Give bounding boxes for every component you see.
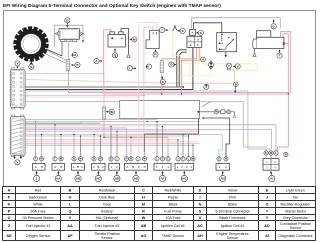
svg-text:K: K — [8, 203, 11, 207]
svg-text:I: I — [199, 196, 200, 200]
svg-text:M: M — [225, 158, 227, 161]
svg-text:10A Fuse: 10A Fuse — [165, 216, 180, 220]
svg-text:B: B — [73, 158, 75, 161]
svg-text:AH: AH — [197, 234, 203, 238]
svg-text:E: E — [266, 189, 269, 193]
svg-text:C: C — [138, 165, 140, 169]
svg-text:White: White — [33, 202, 42, 206]
svg-text:Fuel Injector #2: Fuel Injector #2 — [95, 224, 120, 228]
svg-text:MIL (Optional): MIL (Optional) — [96, 216, 119, 220]
svg-text:Diagnostic Connector: Diagnostic Connector — [278, 234, 313, 238]
svg-text:S: S — [200, 31, 202, 35]
svg-text:Tan: Tan — [293, 195, 299, 199]
svg-text:S: S — [199, 210, 202, 214]
svg-text:U: U — [8, 216, 11, 220]
svg-text:G: G — [69, 196, 72, 200]
svg-text:EFI Wiring Diagram 5-Terminal: EFI Wiring Diagram 5-Terminal Connector … — [3, 3, 221, 9]
svg-text:AI: AI — [265, 234, 269, 238]
svg-text:V: V — [69, 216, 72, 220]
svg-text:Pink: Pink — [229, 195, 236, 199]
svg-text:Rectifier-Regulator: Rectifier-Regulator — [281, 202, 312, 206]
svg-text:Y: Y — [266, 216, 269, 220]
svg-text:A: A — [35, 165, 37, 169]
svg-text:B: B — [60, 165, 62, 169]
svg-text:Starter Motor: Starter Motor — [285, 209, 307, 213]
svg-text:N: N — [199, 203, 202, 207]
svg-text:N: N — [30, 65, 32, 69]
svg-text:R: R — [142, 210, 145, 214]
svg-text:A: A — [126, 165, 128, 169]
svg-text:Stator: Stator — [228, 202, 238, 206]
svg-text:I: I — [162, 28, 163, 32]
svg-text:Dark Green: Dark Green — [29, 195, 48, 199]
svg-text:B: B — [285, 153, 287, 156]
svg-text:B: B — [132, 165, 134, 169]
svg-text:M: M — [100, 158, 102, 161]
svg-text:Sensor: Sensor — [290, 226, 302, 230]
svg-text:M: M — [192, 158, 194, 161]
svg-text:Black: Black — [169, 202, 178, 206]
svg-text:I: I — [129, 66, 130, 70]
svg-text:Oxygen Sensor: Oxygen Sensor — [26, 234, 52, 238]
svg-text:AI: AI — [270, 177, 273, 181]
svg-text:Black Connector: Black Connector — [219, 216, 246, 220]
svg-text:X: X — [16, 160, 18, 164]
svg-text:Sensor: Sensor — [101, 236, 113, 240]
svg-text:B: B — [77, 165, 79, 169]
svg-text:AE: AE — [6, 234, 12, 238]
svg-text:B: B — [93, 158, 95, 161]
svg-text:M: M — [80, 158, 82, 161]
svg-text:O: O — [266, 203, 269, 207]
svg-text:AG: AG — [182, 177, 187, 181]
svg-text:C: C — [102, 165, 104, 169]
svg-text:P: P — [76, 63, 78, 67]
svg-text:B: B — [69, 189, 72, 193]
svg-text:Dark Blue: Dark Blue — [99, 195, 115, 199]
svg-text:T: T — [279, 54, 281, 58]
svg-text:Y: Y — [16, 61, 18, 65]
svg-text:Grey Connector: Grey Connector — [283, 216, 309, 220]
svg-text:H: H — [74, 53, 76, 57]
svg-text:A: A — [54, 165, 56, 169]
svg-text:M: M — [60, 158, 62, 161]
svg-text:H: H — [142, 196, 145, 200]
svg-text:Ignition Coil #2: Ignition Coil #2 — [221, 224, 245, 228]
svg-text:U: U — [202, 57, 204, 61]
svg-text:Oil Pressure Switch: Oil Pressure Switch — [22, 216, 53, 220]
svg-text:D: D — [199, 189, 202, 193]
svg-text:K: K — [265, 152, 267, 155]
svg-text:X: X — [199, 216, 202, 220]
svg-text:AC: AC — [197, 224, 203, 228]
svg-text:W: W — [142, 216, 146, 220]
svg-text:Fuel Pump: Fuel Pump — [164, 209, 181, 213]
svg-text:M: M — [142, 203, 145, 207]
svg-text:C: C — [142, 189, 145, 193]
svg-text:M: M — [144, 158, 146, 161]
svg-text:D: D — [197, 43, 199, 47]
svg-text:M: M — [270, 152, 272, 155]
svg-text:V: V — [237, 64, 239, 68]
svg-text:Red/White: Red/White — [165, 188, 182, 192]
svg-text:AB: AB — [141, 224, 147, 228]
svg-text:A: A — [8, 189, 11, 193]
svg-text:Q: Q — [69, 210, 72, 214]
svg-text:Z: Z — [36, 177, 38, 181]
svg-text:5-Terminal Connector: 5-Terminal Connector — [215, 209, 250, 213]
svg-text:Yellow: Yellow — [227, 188, 238, 192]
svg-text:C: C — [167, 158, 169, 161]
svg-text:AG: AG — [141, 234, 147, 238]
svg-text:AH: AH — [221, 177, 225, 181]
svg-text:TMAP Sensor: TMAP Sensor — [162, 234, 185, 238]
svg-text:P: P — [8, 210, 11, 214]
svg-text:AE: AE — [134, 177, 138, 181]
svg-text:B: B — [97, 165, 99, 169]
svg-text:Sensor: Sensor — [227, 236, 239, 240]
svg-text:M: M — [41, 158, 43, 161]
svg-text:AF: AF — [161, 177, 165, 181]
svg-text:W: W — [110, 110, 113, 114]
svg-text:C: C — [190, 37, 192, 41]
svg-text:H: H — [126, 158, 128, 161]
svg-text:D: D — [144, 165, 146, 169]
svg-text:M: M — [215, 110, 217, 114]
svg-text:E: E — [190, 43, 192, 47]
svg-text:A: A — [191, 31, 193, 35]
svg-text:Ignition Coil #1: Ignition Coil #1 — [161, 224, 185, 228]
svg-text:Battery: Battery — [101, 209, 113, 213]
svg-text:A: A — [93, 165, 95, 169]
svg-text:Grey: Grey — [103, 202, 111, 206]
svg-text:AA: AA — [67, 224, 73, 228]
svg-text:Fuel Injector #1: Fuel Injector #1 — [26, 224, 51, 228]
svg-text:AF: AF — [67, 234, 73, 238]
svg-text:30A Fuse: 30A Fuse — [30, 209, 45, 213]
svg-text:Light Green: Light Green — [286, 188, 305, 192]
svg-text:B: B — [130, 158, 132, 161]
svg-text:B: B — [235, 82, 237, 86]
svg-text:AD: AD — [264, 224, 270, 228]
svg-text:Purple: Purple — [168, 195, 178, 199]
svg-text:Red: Red — [35, 188, 42, 192]
svg-text:D: D — [110, 158, 112, 161]
svg-text:J: J — [266, 196, 268, 200]
svg-text:B: B — [41, 165, 43, 169]
svg-text:Red/Black: Red/Black — [99, 188, 116, 192]
svg-text:A: A — [73, 165, 75, 169]
svg-text:B: B — [197, 37, 199, 41]
svg-text:C: C — [81, 165, 83, 169]
svg-text:D: D — [162, 158, 164, 161]
